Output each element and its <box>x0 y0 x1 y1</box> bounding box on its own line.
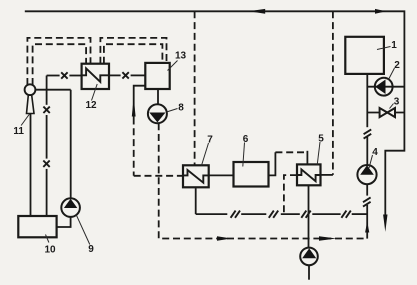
svg-text:2: 2 <box>394 60 400 71</box>
svg-text:12: 12 <box>85 100 97 111</box>
svg-text:7: 7 <box>207 134 213 145</box>
svg-text:9: 9 <box>88 244 94 255</box>
svg-text:8: 8 <box>178 102 184 113</box>
svg-text:13: 13 <box>175 50 187 61</box>
svg-text:11: 11 <box>13 126 24 137</box>
svg-text:10: 10 <box>44 244 56 255</box>
svg-text:3: 3 <box>394 96 400 107</box>
svg-text:6: 6 <box>243 134 249 145</box>
svg-text:4: 4 <box>372 147 378 158</box>
svg-text:5: 5 <box>318 133 324 144</box>
svg-text:1: 1 <box>391 40 397 51</box>
